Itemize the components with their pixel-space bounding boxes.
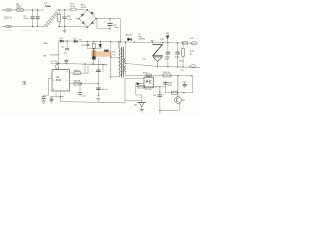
node dot bottom bus (60, 96, 61, 97)
wire IC right pin upper (70, 72, 89, 74)
svg-text:PC817: PC817 (145, 76, 152, 78)
bridge rectifier BR1 (79, 10, 97, 27)
capacitor C2 (36, 10, 40, 27)
transformer T1 primary winding (119, 42, 120, 77)
thermistor RT1 (70, 8, 77, 11)
transformer T1 secondary winding (125, 58, 126, 63)
diode D6 dark (92, 57, 95, 65)
capacitor C13 plates (163, 83, 167, 85)
node dots ground rail (157, 66, 184, 68)
wire mid bottom bus (61, 102, 126, 103)
wire right up (191, 76, 193, 93)
wire lower right horizontal (165, 91, 192, 93)
wire opto in top (125, 78, 144, 80)
wire primary mid (111, 56, 119, 58)
diode D4 (82, 20, 84, 24)
inductor L1 common-mode choke (43, 10, 61, 27)
svg-text:R6 1R: R6 1R (74, 80, 81, 82)
svg-text:R2 470k: R2 470k (50, 55, 59, 57)
wire Q2 emitter to ground (179, 105, 181, 111)
wire stub x85 down (84, 64, 86, 73)
capacitor C5 electrolytic (104, 19, 112, 29)
wire IC bottom pins (56, 91, 61, 102)
wire NTC to bridge top (77, 9, 88, 11)
node dots snubber (87, 41, 121, 43)
label choke dash (47, 5, 50, 7)
node dots top bus (57, 63, 94, 65)
triangle mark (153, 57, 162, 62)
diode D7 snubber (99, 42, 102, 49)
capacitor C15 bottom left (50, 97, 54, 103)
diode D5 on output rail (127, 38, 132, 41)
wire dc down to rail (120, 19, 122, 42)
IC U1 box (52, 70, 70, 91)
wire bottom rail to bridge (58, 26, 87, 29)
svg-text:220 V: 220 V (4, 16, 12, 20)
wire right column (159, 87, 161, 114)
capacitor C10 electrolytic (166, 43, 170, 67)
wire sense riser (97, 58, 99, 96)
wire feedback upper (126, 74, 192, 77)
svg-text:0.1µ: 0.1µ (24, 18, 29, 20)
Z mark (153, 45, 163, 56)
svg-text:2.2µ: 2.2µ (67, 19, 72, 21)
svg-text:FR107: FR107 (126, 35, 133, 37)
wire lower right net (164, 81, 166, 92)
wire top rail (12, 9, 17, 11)
node dots mid (59, 9, 66, 27)
wire lower mid bus (82, 63, 107, 65)
node dot C4 (66, 40, 67, 41)
wire Z bottom to ground rail (156, 62, 158, 67)
node dot lower right (183, 92, 184, 93)
svg-text:4: 4 (53, 89, 54, 91)
capacitor C6 snubber (86, 41, 89, 48)
capacitor C14 left (42, 95, 49, 101)
capacitor C4b above bus (65, 59, 68, 64)
wire bridge output top (96, 18, 120, 20)
wire aux bottom (125, 72, 127, 75)
svg-text:7: 7 (53, 71, 54, 73)
optocoupler U2 box (144, 77, 154, 88)
TL431 U3 (138, 99, 146, 112)
wire TL431 cathode up (136, 87, 142, 100)
resistor R0 vertical (58, 10, 61, 27)
wire riser left (58, 41, 60, 64)
wire riser x110.8 (110, 42, 112, 77)
capacitor C3 vertical (63, 10, 66, 27)
svg-text:+12V: +12V (189, 38, 195, 40)
node dot sense (98, 83, 99, 84)
svg-text:5D-9: 5D-9 (70, 6, 76, 8)
svg-text:25V: 25V (165, 59, 169, 61)
svg-text:C8 1n: C8 1n (102, 89, 109, 91)
resistor R3 snubber (92, 42, 95, 49)
svg-text:R17 2k: R17 2k (145, 89, 153, 91)
connector J2 bottom plug (2, 25, 11, 27)
diode D3 on rail (60, 40, 64, 43)
ground stub below C3 (63, 27, 67, 33)
capacitor C12 vertical (183, 83, 187, 88)
svg-text:1: 1 (67, 89, 68, 91)
svg-text:2: 2 (53, 80, 54, 82)
svg-text:3843: 3843 (56, 79, 62, 82)
wire secondary top to rail (125, 42, 127, 58)
diode D2 (90, 21, 93, 24)
wire bottom rail (12, 26, 43, 28)
resistor R25 body (147, 74, 151, 77)
scan artifact (2, 29, 44, 32)
wire opto in bottom with diode (136, 82, 144, 85)
capacitor C6b mid bottom (78, 85, 82, 96)
svg-text:100µ: 100µ (114, 27, 120, 29)
node dot bottom (159, 110, 160, 111)
capacitor C9 on right column (158, 95, 162, 97)
wire stub left of bridge (76, 18, 79, 20)
svg-text:R5 10: R5 10 (74, 70, 81, 72)
transformer T1 core (121, 47, 123, 77)
inductor L2 on output rail (139, 38, 145, 39)
capacitor C7 plates on riser (96, 70, 100, 72)
resistor R17 on lower bus (138, 85, 145, 88)
diode D4 on rail (74, 40, 78, 43)
resistor R5b on pin (74, 72, 81, 75)
wire main rail (59, 41, 196, 43)
capacitor C4 below rail (65, 41, 69, 50)
svg-text:470µ: 470µ (175, 57, 181, 59)
diode D3 (81, 14, 84, 17)
node dot mid ground (98, 95, 99, 96)
wire primary bottom (111, 76, 119, 78)
wire gate riser (87, 66, 89, 73)
wire IC left pin (48, 79, 52, 96)
node dots mid bus (93, 56, 111, 77)
resistor R15 on feedback wire (163, 74, 171, 77)
node dot C6b (79, 83, 80, 84)
wire top rail to NTC (59, 9, 71, 11)
svg-text:C3 10µ: C3 10µ (50, 61, 58, 63)
node dots bridge (78, 9, 97, 28)
svg-text:8: 8 (67, 71, 68, 73)
ground left (42, 101, 46, 104)
node dots lower bus (156, 86, 161, 87)
fuse F1 (16, 9, 25, 12)
wire stub x103 down (102, 65, 104, 73)
capacitor C1 (31, 10, 35, 27)
svg-text:250V: 250V (16, 7, 22, 9)
capacitor C8 plates on riser (96, 88, 100, 90)
svg-text:1A: 1A (16, 3, 19, 6)
diode D9 stub above rail (166, 35, 169, 42)
connector output 2 (189, 65, 196, 68)
connector output 1 (190, 42, 197, 45)
transformer T1 aux winding (125, 66, 126, 72)
IC pin numbers (53, 71, 68, 90)
diode D1 (91, 12, 95, 14)
wire lower feedback bus (136, 86, 166, 88)
svg-text:R15 1k: R15 1k (163, 72, 171, 74)
resistor R19 on wire (171, 91, 177, 94)
resistor R6 on pin (74, 82, 82, 85)
svg-text:1M: 1M (43, 55, 46, 57)
resistor R11 on rail (183, 42, 188, 44)
mark stamp (23, 81, 26, 84)
wire vcc top bus (51, 63, 108, 64)
resistor R4 fusible orange body (92, 49, 112, 57)
svg-text:2W10: 2W10 (81, 7, 87, 9)
wire secondary ground rail (126, 63, 200, 67)
resistor R5 stub into IC (56, 63, 59, 69)
node dot secondary rail (125, 42, 126, 43)
resistor R12 vertical (182, 43, 185, 67)
wire bridge output down (97, 19, 110, 29)
wire top rail after fuse (25, 9, 43, 11)
wire bottom ground rail (160, 109, 178, 111)
node dot secondary gnd (125, 63, 126, 64)
node dots feedback (177, 75, 192, 77)
wire opto left riser (124, 79, 126, 103)
svg-text:6: 6 (67, 80, 68, 82)
capacitor C11 electrolytic (176, 43, 180, 67)
node dots dc link (109, 18, 110, 29)
wire bottom small bus (51, 96, 64, 98)
wire IC right pin lower (70, 83, 99, 85)
connector J1 top plug (2, 9, 11, 11)
wire opto diode drop (135, 84, 137, 87)
wire TL431 ref (125, 100, 142, 102)
node dots output rail (134, 41, 183, 43)
node dot right column (159, 91, 160, 92)
node junction dots input (32, 9, 39, 27)
transistor Q2 (175, 76, 182, 105)
ground mid (97, 99, 101, 102)
wire snubber bus (88, 48, 101, 50)
